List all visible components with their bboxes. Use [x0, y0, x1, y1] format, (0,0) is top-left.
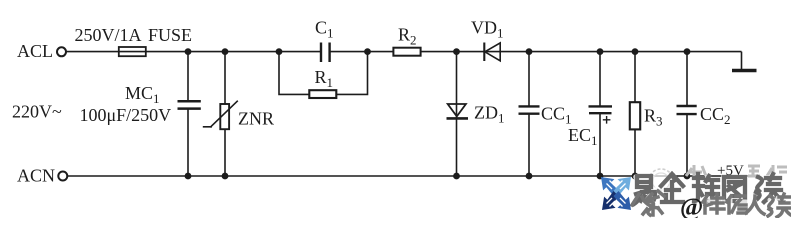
- svg-text:ZD1: ZD1: [474, 102, 505, 125]
- svg-text:EC1: EC1: [568, 125, 598, 148]
- svg-text:R1: R1: [315, 67, 334, 90]
- svg-text:CC1: CC1: [541, 103, 572, 126]
- svg-text:250V/1A: 250V/1A: [75, 25, 142, 45]
- svg-text:220V~: 220V~: [12, 101, 62, 121]
- svg-text:ZNR: ZNR: [238, 109, 274, 129]
- svg-text:R2: R2: [398, 24, 417, 47]
- svg-text:100μF/250V: 100μF/250V: [80, 105, 172, 125]
- svg-text:CC2: CC2: [700, 104, 731, 127]
- svg-text:VD1: VD1: [471, 17, 504, 40]
- svg-text:FUSE: FUSE: [148, 25, 192, 45]
- svg-text:MC1: MC1: [125, 83, 160, 106]
- svg-text:R3: R3: [644, 105, 663, 128]
- svg-text:@: @: [680, 194, 703, 218]
- svg-text:ACL: ACL: [17, 41, 53, 61]
- svg-text:C1: C1: [315, 17, 334, 40]
- svg-text:ACN: ACN: [17, 166, 55, 186]
